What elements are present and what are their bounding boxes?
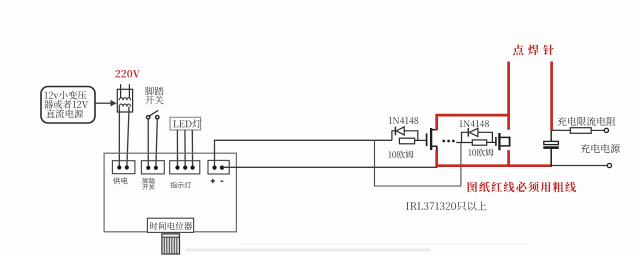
capacitor C1 (welding cap) (543, 130, 559, 167)
red right edge lower (Q2 source drop) (507, 150, 510, 167)
resistor R2 10 ohm (456, 140, 496, 145)
controller board outline (104, 153, 236, 232)
charging resistor R3 (551, 128, 604, 134)
welding pin left (red) (507, 62, 510, 130)
label 充电电源 (581, 144, 620, 153)
welding pin right (red) (550, 62, 553, 131)
mosfet Q2 (496, 133, 510, 150)
mosfet Q1 (427, 128, 438, 151)
power source box PS1 (12v transformer or 12V DC supply) (41, 87, 95, 124)
label 1N4148 (stage 1) (389, 117, 419, 124)
gate bus U-link to stage 2 (375, 140, 461, 186)
label + - (211, 179, 224, 183)
resistor R1 10 ohm (399, 138, 426, 144)
time potentiometer label box (147, 218, 193, 232)
terminal block 脚踏开关 (141, 161, 164, 174)
label 10欧姆 (stage 1) (388, 151, 413, 159)
label 220V (115, 70, 140, 78)
diode D2 1N4148 (462, 128, 493, 142)
diode D1 1N4148 (392, 127, 418, 141)
terminal charging supply - (607, 163, 611, 167)
label 10欧姆 (stage 2) (468, 149, 493, 157)
terminal charging supply + (604, 128, 608, 132)
label 供电 (113, 177, 128, 184)
red source bus (bottom) (435, 164, 551, 167)
LED indicator box LED1 (170, 117, 201, 130)
transformer T1 (117, 89, 132, 112)
label 指示灯 (171, 182, 192, 188)
label 充电限流电阻 (557, 117, 615, 126)
potentiometer knob RP1 (162, 234, 180, 254)
terminal block 指示灯 (170, 161, 200, 174)
wire SW1 to terminal 脚踏开关 (148, 119, 157, 166)
label 图纸红线必须用粗线 (468, 182, 576, 193)
wire + terminal to gate line (215, 140, 392, 166)
label 脚踏开关 (foot switch) (145, 87, 164, 105)
terminal block 供电 (112, 161, 134, 174)
wire - terminal to source bus (223, 166, 438, 168)
wire LED1 to terminal 指示灯 (177, 130, 192, 166)
transformer T1 primary wires (220V stubs) (121, 84, 130, 97)
label 1N4148 (stage 2) (459, 120, 489, 127)
label IRL371320只以上 (406, 201, 487, 210)
wire charging supply - (551, 165, 607, 167)
red drain bus (top edge + left edge upper) (437, 115, 510, 130)
label 点焊针 (513, 45, 554, 56)
dots parallel continuation (442, 140, 454, 143)
label 脚踏开关 on board (142, 178, 154, 190)
terminal block + - (208, 160, 229, 174)
red left edge lower (Q1 source drop) (435, 150, 438, 167)
foot switch SW1 (147, 110, 160, 119)
wire arrow PS1 to transformer T1 (96, 100, 117, 107)
wire T1 secondary to terminal 供电 (119, 107, 129, 166)
faint watermark smudge (186, 244, 530, 252)
